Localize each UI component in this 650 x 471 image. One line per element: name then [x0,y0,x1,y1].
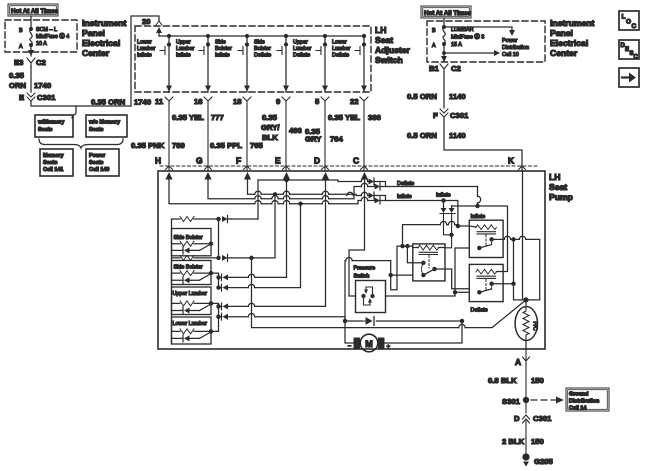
svg-text:SCM – L: SCM – L [36,27,57,33]
unit1 output line w/ coil L1 and diode [172,216,259,223]
diode drop 2 (deflate to center coil) [445,206,455,248]
svg-text:Seats: Seats [43,160,57,166]
svg-text:B: B [432,28,436,34]
svg-text:Inflate: Inflate [176,53,191,59]
center relay contact out to deflate side [445,269,469,289]
svg-text:−: − [348,343,352,350]
svg-text:Deflate: Deflate [397,181,414,187]
svg-text:0.5 ORN: 0.5 ORN [407,131,437,140]
pump pin H [155,156,173,170]
svg-text:Cell 10: Cell 10 [502,52,519,58]
svg-text:E: E [625,47,629,53]
svg-text:E: E [19,93,24,102]
x218 tie line1-line2 [218,219,220,258]
svg-text:S301: S301 [502,397,521,406]
svg-text:9: 9 [276,97,280,106]
svg-text:Lumbar: Lumbar [293,46,311,52]
svg-text:Seats: Seats [38,127,52,133]
svg-text:Pressure: Pressure [354,266,376,272]
wire 0.5 ORN 1140 (lower) to pump pin K [444,117,522,171]
Ha tie line coil feeds [403,225,470,247]
svg-text:O: O [626,19,631,26]
wire label 0.35 ORN 1740 horizontal [91,98,151,107]
wire from C301 to switch feed [31,101,131,106]
inflate relay contact line east over K to right drop [503,239,540,300]
splice S301 [502,397,564,407]
svg-text:1140: 1140 [449,131,466,140]
wire label 0.35 PNK 789 [131,141,185,150]
line 4b with diode to pressure switch bottom node [219,313,346,321]
svg-text:386: 386 [368,113,381,122]
pc bus with inline connector [343,319,346,322]
fuse LUMBAR MiniFuse 3 15A [432,26,484,49]
wire label 0.35 GRY 764 [305,127,344,144]
svg-text:Lower: Lower [332,40,347,46]
svg-text:0.35 ORN: 0.35 ORN [91,98,126,107]
svg-text:Memory: Memory [43,153,64,159]
svg-text:Cell 14: Cell 14 [569,406,586,412]
svg-text:11: 11 [155,97,164,106]
svg-text:150: 150 [531,437,544,446]
svg-text:15 A: 15 A [451,42,462,48]
svg-text:2 BLK: 2 BLK [502,437,525,446]
wire C feed down to pressure switch [349,177,365,296]
unit2 output line w/ coil L2 and diode [172,254,276,261]
svg-text:BLK: BLK [262,133,278,142]
node 3b joins H line [299,202,302,205]
unit3 box Upper Lumbar [172,287,213,315]
diode drop 1 (inflate to coil bus) [440,201,452,235]
icon box DESC [619,40,639,61]
Instrument Panel Electrical Center title (left top) [82,18,127,58]
svg-text:A: A [432,43,436,49]
svg-text:Lumbar: Lumbar [176,46,194,52]
Instrument Panel Electrical Center title (right) [550,18,595,58]
branch to memory seats options [72,106,76,118]
svg-text:Power: Power [89,153,106,159]
svg-text:764: 764 [330,135,344,144]
svg-text:B1: B1 [429,64,440,73]
wire exits fuse box with arrow [30,45,32,56]
svg-text:Hot At All Times: Hot At All Times [424,10,472,17]
IP electrical center right dashed box [427,21,545,62]
wire E continues down to line 3a [286,180,288,277]
wire 0.5 ORN 1140 (upper) [443,72,445,108]
brace under option boxes [39,139,123,148]
connector C301 pin D (ground) [514,403,552,455]
svg-text:H: H [155,156,161,166]
wire label 0.35 YEL 777 [172,113,224,122]
svg-text:Center: Center [82,48,110,58]
svg-text:1740: 1740 [34,81,51,90]
pressure switch box [356,281,386,313]
svg-text:Deflate: Deflate [471,308,488,314]
svg-text:G: G [196,156,203,166]
svg-text:Adjuster: Adjuster [375,45,411,55]
pump connector dashed line [160,165,538,167]
svg-text:150: 150 [531,376,544,385]
diode D-inflate-F [369,193,375,199]
svg-text:16: 16 [194,97,203,106]
pressure switch right lead to relay pivots [386,248,470,296]
pressure switch contacts [362,287,374,305]
bypass loop from PC bus to center relay feed [345,246,413,321]
svg-text:Seats: Seats [89,127,103,133]
svg-text:Cell 140: Cell 140 [89,167,109,173]
diode D-deflate-G [375,184,381,190]
svg-text:0.8 BLK: 0.8 BLK [488,376,517,385]
svg-text:Instrument: Instrument [550,18,595,28]
wire 0.8 BLK 150 [488,376,544,385]
wire from Hot label into fuse [443,18,445,27]
motor M [345,321,462,352]
svg-text:Inflate: Inflate [436,193,451,199]
svg-text:Inflate: Inflate [397,194,412,200]
wire exits fuse box with arrow [443,44,445,61]
wire D feed down to line 4a [325,177,327,306]
unit1 box Side Bolster [172,229,213,256]
w/Memory Seats box [35,115,73,137]
switch S1 Lower Lumbar Inflate [137,35,172,93]
icon box LOC [619,11,639,30]
svg-text:E: E [275,156,281,166]
svg-text:0.35 PPL: 0.35 PPL [210,141,242,150]
LH Seat Adjuster Switch title [375,25,411,65]
center relay pivot lead to loop [391,274,413,276]
wire F feed line [248,177,386,201]
svg-text:E3: E3 [14,58,23,67]
pump pin D [314,156,329,170]
pin entry arrows inside pump [165,172,368,180]
svg-text:MiniFuse Ⓢ 4: MiniFuse Ⓢ 4 [36,32,69,40]
deflate wire drop with hop [452,187,478,207]
svg-text:Side Bolster: Side Bolster [174,235,203,241]
svg-text:D: D [514,414,520,423]
svg-text:Inflate: Inflate [471,214,486,220]
svg-text:777: 777 [211,113,224,122]
svg-text:C2: C2 [36,58,46,67]
svg-text:Seat: Seat [375,35,393,45]
svg-text:F: F [236,156,241,166]
svg-text:LUMBAR: LUMBAR [451,27,474,33]
svg-text:Switch: Switch [375,55,403,65]
riser from unit2 line down to PC bus [252,258,527,328]
svg-text:Instrument: Instrument [82,18,127,28]
line 3a with diode to pin E [219,274,287,281]
svg-text:Seats: Seats [89,160,103,166]
svg-text:A: A [515,357,521,367]
pump pin E [275,156,290,170]
pump pin C [353,156,368,170]
svg-text:Seat: Seat [549,182,567,192]
switch S5 Upper Lumbar Deflate [293,35,328,93]
svg-text:0.35: 0.35 [9,71,25,80]
IP electrical center left dashed box [5,20,77,52]
line 4a with diode to pin D [219,303,326,310]
pump pin A connector [515,349,530,397]
svg-text:Lower Lumbar: Lower Lumbar [173,321,208,327]
svg-text:Upper: Upper [176,40,191,46]
svg-text:D: D [314,156,320,166]
svg-text:Bolster: Bolster [215,46,232,52]
deflate feed to deflate relay [478,206,508,272]
svg-text:Electrical: Electrical [550,38,588,48]
svg-text:Electrical: Electrical [82,38,120,48]
svg-text:0.35 PNK: 0.35 PNK [131,141,165,150]
svg-text:765: 765 [250,141,264,150]
hop bumps on H line [255,200,329,203]
line 3b with diode to H line [219,204,301,291]
svg-text:Side Bolster: Side Bolster [174,265,203,271]
svg-text:Panel: Panel [550,28,573,38]
svg-text:Lumbar: Lumbar [332,46,350,52]
svg-text:C: C [353,156,359,166]
svg-text:Inflate: Inflate [137,53,152,59]
svg-text:20: 20 [142,17,151,26]
LH Seat Pump title [549,172,573,202]
switch S6 Lower Lumbar Deflate [332,35,367,93]
connector C301 pin E [19,93,56,102]
switch dashed box [135,26,371,92]
wire G feed line [208,177,478,199]
svg-text:MiniFuse Ⓢ 3: MiniFuse Ⓢ 3 [451,33,484,41]
unit4 box Lower Lumbar [172,317,213,344]
wire up to switch pin 20 (0.35 ORN 1740) [131,16,159,106]
svg-text:L: L [622,14,626,21]
svg-text:789: 789 [172,141,185,150]
pump pin K [508,156,526,170]
svg-text:Upper: Upper [293,40,308,46]
svg-text:LH: LH [549,172,560,182]
svg-text:w/Memory: w/Memory [37,120,64,126]
svg-text:Hot At All Times: Hot At All Times [11,8,59,15]
svg-text:w/o Memory: w/o Memory [88,120,120,126]
svg-text:LH: LH [375,25,386,35]
svg-text:C: C [632,23,637,30]
svg-text:Distribution: Distribution [502,45,529,51]
pin 22 connector [350,97,368,171]
pump pin G [196,156,212,170]
unit2 box Side Bolster [172,261,213,285]
link unit3/unit4 to lines 4a 4b [211,303,219,331]
switch S3 Side Bolster Inflate [215,35,250,93]
svg-text:GRY: GRY [305,135,321,144]
svg-text:Power: Power [502,38,517,44]
svg-text:18: 18 [233,97,242,106]
Power Seats Cell 140 box [86,149,119,176]
svg-text:0.5 ORN: 0.5 ORN [407,92,437,101]
svg-text:K: K [508,156,514,166]
svg-text:Inflate: Inflate [215,53,230,59]
svg-text:A: A [19,44,23,50]
hop bumps on G line [255,196,329,199]
svg-text:M: M [365,339,373,349]
wire 0.35 ORN 1740 (left) [30,66,32,92]
wire label 0.35 YEL 386 [328,113,381,122]
svg-text:C301: C301 [533,414,552,423]
svg-text:10 A: 10 A [36,41,47,47]
label Hot At All Times (right) [421,6,472,18]
svg-text:G205: G205 [534,457,554,466]
pin 9 connector [276,97,290,171]
label Hot At All Times (left) [8,4,59,16]
switch common bus [159,35,364,37]
pin 16 connector [194,97,212,171]
wire label 0.35 GRY/BLK 466 [261,113,302,142]
V2 vertical F-net to unit2 line [274,194,276,258]
svg-text:Side: Side [254,40,265,46]
wire from Hot label into fuse [30,16,32,28]
V1 vertical E-net to unit1 line [257,180,259,219]
ground G205 [523,454,554,467]
svg-text:5: 5 [315,97,320,106]
node on inflate wire [442,199,445,202]
svg-text:Deflate: Deflate [332,53,349,59]
svg-text:C301: C301 [450,111,469,120]
Ground Distribution Cell 14 box [566,388,609,412]
svg-text:P/C: P/C [532,321,538,330]
svg-text:Center: Center [550,48,578,58]
svg-text:GRY/: GRY/ [261,123,280,132]
svg-text:466: 466 [289,126,302,135]
pin 18 connector [233,97,251,171]
svg-text:Upper Lumbar: Upper Lumbar [173,291,208,297]
w/o Memory Seats box [86,115,127,137]
icon box right-arrow [619,68,639,87]
link unit2 to lines 3a 3b [211,273,219,288]
svg-text:+: + [387,344,391,351]
branch arrow right to Cell 10 [444,52,494,54]
svg-text:Deflate: Deflate [254,53,271,59]
svg-text:Cell 141: Cell 141 [43,167,63,173]
svg-text:0.35 YEL: 0.35 YEL [328,113,360,122]
feed arrow into pin 20 inside box [158,30,160,36]
diode D-inflate-H [375,198,381,204]
wire label 0.35 PPL 765 [210,141,264,150]
branch arrow to Power Distribution (down) [444,27,512,31]
Power Distribution Cell 10 text [502,38,529,58]
svg-text:ORN: ORN [9,81,27,90]
svg-text:C2: C2 [451,64,461,73]
svg-text:Bolster: Bolster [254,46,271,52]
svg-text:Panel: Panel [82,28,105,38]
svg-text:Side: Side [215,40,226,46]
svg-text:Lower: Lower [137,40,152,46]
svg-text:1140: 1140 [449,92,466,101]
fuse SCM-L MiniFuse 4 10A [19,27,69,50]
deflate contact drop to PC node [514,239,540,300]
connector C301 pin F (right) [433,109,469,120]
svg-text:22: 22 [350,97,359,106]
svg-text:1740: 1740 [134,98,151,107]
pin 11 connector [155,97,173,171]
diode D-deflate-E [369,179,375,185]
switch S4 Side Bolster Deflate [254,35,289,93]
svg-text:Deflate: Deflate [293,53,310,59]
svg-text:0.35: 0.35 [262,113,278,122]
pump pin F [236,156,251,170]
svg-text:Distribution: Distribution [569,399,599,405]
wire 2 BLK 150 [502,437,544,446]
connector C2 pin B1 (right) [429,64,461,73]
svg-text:F: F [433,111,438,120]
svg-text:0.35 YEL: 0.35 YEL [172,113,204,122]
wire K down to PC node [522,172,524,300]
left column shared wire [171,219,173,344]
pin 5 connector [315,97,329,171]
wire H feed line [169,177,458,225]
svg-text:C301: C301 [37,93,56,102]
Memory Seats Cell 141 box [40,149,73,176]
pin 20 connector at top of switch [142,17,162,26]
svg-text:Lumbar: Lumbar [137,46,155,52]
center relay outside-left contact riser [407,246,412,263]
svg-text:Switch: Switch [354,274,370,280]
svg-text:B: B [19,28,23,34]
wire E feed line [258,177,386,187]
svg-text:Ground: Ground [569,392,588,398]
svg-text:C: C [634,55,639,61]
svg-text:Pump: Pump [549,192,573,202]
connector C2 pin E3 [14,58,46,67]
switch S2 Upper Lumbar Inflate [176,35,211,93]
